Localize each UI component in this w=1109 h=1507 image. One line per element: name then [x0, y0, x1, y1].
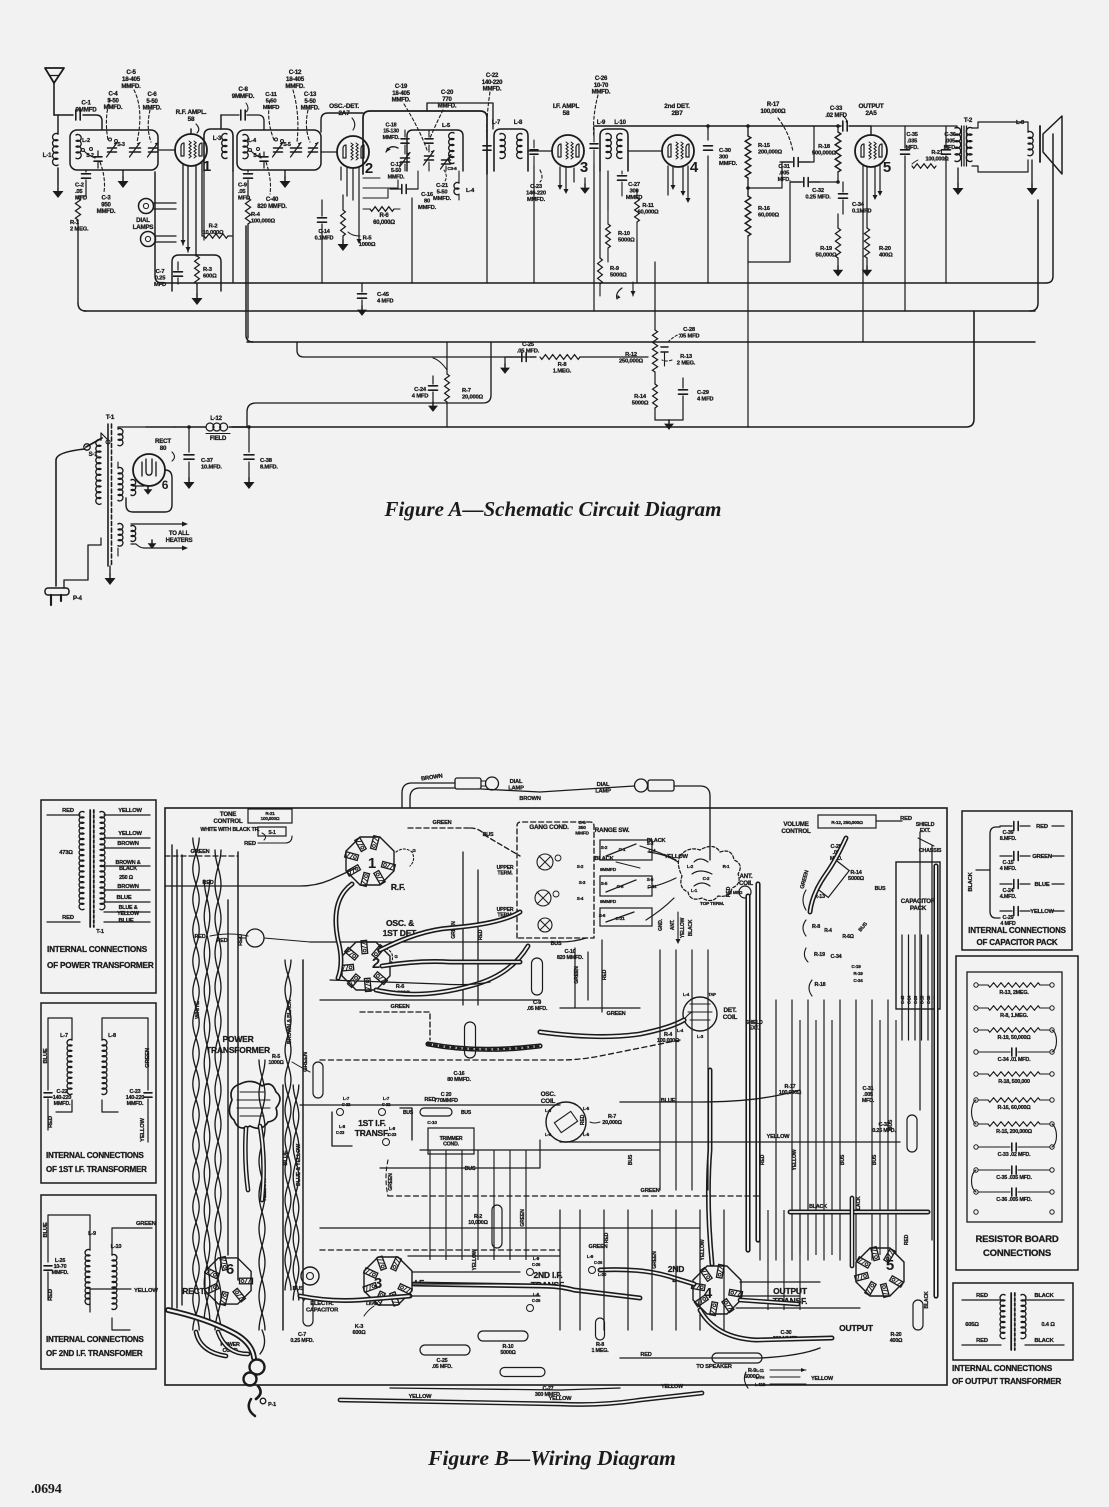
svg-text:BLUE: BLUE [43, 1222, 49, 1237]
svg-text:TO SPEAKER: TO SPEAKER [696, 1364, 733, 1370]
transformer T-1 sec bot [118, 524, 123, 557]
svg-text:C-30: C-30 [719, 148, 731, 154]
svg-text:MMFD.: MMFD. [433, 196, 452, 202]
svg-text:GREEN: GREEN [388, 1173, 394, 1191]
svg-text:C-10: C-10 [427, 1120, 437, 1126]
svg-text:R-4: R-4 [824, 928, 832, 934]
label BLACK ot1 [1034, 1293, 1054, 1299]
wire blue rot [283, 1085, 289, 1330]
label red right top [900, 816, 912, 822]
svg-text:C-4: C-4 [108, 92, 118, 98]
dial lamp assembly 1 [455, 777, 524, 791]
svg-text:1.MEG.: 1.MEG. [553, 369, 572, 375]
wire green label mid [607, 1011, 626, 1017]
svg-text:MMFD.: MMFD. [483, 87, 502, 93]
capacitor C-32 [790, 178, 831, 201]
caption 2nd IF panel [46, 1335, 144, 1358]
svg-text:BLACK: BLACK [688, 919, 694, 936]
label ant coil [739, 873, 753, 887]
range switch S-4 box [600, 876, 657, 896]
rail 311 right end [1030, 200, 1038, 311]
resistor R-12 label [619, 352, 644, 365]
ground tube3 area [580, 178, 590, 194]
drop x946 C36 [945, 166, 947, 283]
capacitor C-30 [704, 129, 738, 171]
svg-text:R-2: R-2 [209, 224, 218, 230]
svg-text:2 MEG.: 2 MEG. [677, 361, 696, 367]
label R-9 5000 [712, 1353, 762, 1380]
rail 342 left end [246, 226, 253, 342]
svg-text:C-23: C-23 [388, 1132, 397, 1137]
svg-text:R-8: R-8 [558, 362, 568, 368]
label chassis [919, 848, 942, 854]
svg-text:BUS: BUS [465, 1166, 476, 1172]
svg-text:R-6: R-6 [396, 984, 405, 990]
wire IF1 to tube3 [528, 150, 552, 152]
svg-text:C-36 .005 MFD.: C-36 .005 MFD. [996, 1197, 1032, 1203]
wire tank2 to tube2 [321, 151, 337, 153]
trimmer C-19 sym [424, 151, 435, 172]
svg-text:C-2: C-2 [75, 183, 84, 189]
svg-text:L-7: L-7 [343, 1096, 350, 1101]
ground T-1 core [105, 566, 116, 585]
label 9MMFD rsw [577, 864, 617, 873]
svg-text:C-31: C-31 [778, 164, 789, 170]
svg-text:TOP TERM.: TOP TERM. [700, 901, 724, 907]
2nd IF leads [48, 1215, 134, 1330]
label output transf [773, 1286, 808, 1306]
svg-text:S-4: S-4 [253, 153, 261, 159]
trimmer C-22 [483, 146, 491, 150]
svg-text:COIL: COIL [541, 1098, 556, 1105]
dial lamp wires [402, 783, 710, 808]
resistor R-18 [812, 132, 841, 172]
svg-text:GND.: GND. [658, 918, 664, 931]
svg-text:C-6: C-6 [147, 92, 157, 98]
svg-text:BLACK: BLACK [1034, 1338, 1054, 1344]
svg-text:C-9: C-9 [238, 183, 248, 189]
wire green dash top [408, 820, 520, 856]
svg-text:C-20: C-20 [441, 90, 454, 96]
osc mid wires [363, 178, 398, 198]
svg-text:R-11: R-11 [642, 203, 654, 209]
power cord [168, 1310, 276, 1416]
label RED ot1 [976, 1293, 988, 1299]
resistor R-16 [745, 196, 779, 236]
svg-text:R-10: R-10 [618, 231, 630, 237]
label R-17 bottom [779, 1084, 802, 1096]
svg-text:C-38: C-38 [926, 995, 931, 1004]
svg-text:15-130: 15-130 [383, 129, 399, 135]
svg-text:5: 5 [886, 1257, 894, 1274]
svg-text:C-37: C-37 [201, 458, 213, 464]
svg-text:60,000Ω: 60,000Ω [373, 220, 395, 226]
svg-text:OF POWER TRANSFORMER: OF POWER TRANSFORMER [47, 961, 154, 970]
svg-text:YELLOW: YELLOW [792, 1149, 798, 1170]
coil L-8 [514, 120, 523, 159]
resistor R-9 [598, 258, 627, 296]
trimmer C-21 label [433, 170, 452, 202]
drop x655 [654, 262, 656, 310]
svg-text:YELLOW: YELLOW [118, 831, 142, 837]
svg-text:Figure B—Wiring Diagram: Figure B—Wiring Diagram [427, 1446, 676, 1470]
svg-text:GANG COND.: GANG COND. [529, 824, 569, 831]
svg-text:60,000Ω: 60,000Ω [638, 210, 660, 216]
svg-text:YELLOW: YELLOW [700, 1239, 706, 1260]
tube1 lead wires [181, 163, 203, 256]
label YELLOW 2 [118, 831, 142, 837]
ground under R-5 [338, 236, 349, 251]
wire tube1 plate to L-3 box [190, 129, 192, 134]
label RED top [62, 808, 74, 814]
label yellow ant [664, 854, 688, 860]
svg-text:R-14: R-14 [850, 870, 862, 876]
socket 6 rect [182, 1256, 252, 1305]
panel resistor board box [956, 956, 1078, 1270]
svg-text:L-1: L-1 [43, 152, 52, 159]
svg-text:MMFD.: MMFD. [54, 1101, 71, 1107]
svg-text:BLACK: BLACK [968, 871, 974, 891]
cable right verticals [748, 884, 758, 1250]
svg-text:OF 1ST I.F. TRANSFORMER: OF 1ST I.F. TRANSFORMER [46, 1165, 147, 1174]
svg-text:1 MEG.: 1 MEG. [591, 1348, 609, 1354]
1st IF leads [48, 1018, 148, 1112]
to speaker [696, 1364, 834, 1388]
svg-text:80: 80 [160, 445, 167, 452]
label BLUE rot [43, 1048, 49, 1063]
svg-text:20,000Ω: 20,000Ω [602, 1120, 622, 1126]
wire blue long [620, 1090, 800, 1102]
label DIAL LAMPS [133, 217, 154, 231]
label red bottom [640, 1352, 651, 1358]
svg-text:BROWN: BROWN [117, 884, 139, 890]
svg-text:L-8: L-8 [389, 1126, 396, 1131]
caption Figure B [427, 1446, 676, 1470]
label GREEN rot [145, 1048, 151, 1068]
svg-text:GREEN: GREEN [641, 1188, 660, 1194]
svg-text:BLACK: BLACK [1034, 1293, 1054, 1299]
wire bus horizontal 1150 [420, 1149, 660, 1151]
svg-text:WHITE WITH BLACK TR.: WHITE WITH BLACK TR. [200, 827, 260, 833]
coil L-2 [76, 135, 90, 159]
capacitor C-18 [383, 123, 409, 155]
svg-text:R-19: R-19 [820, 246, 833, 252]
svg-text:C-26: C-26 [532, 1298, 541, 1303]
capacitor C-22 label [482, 73, 503, 140]
svg-text:MMFD.: MMFD. [143, 106, 162, 112]
ant coil scribble [678, 846, 740, 900]
svg-text:2A7: 2A7 [338, 110, 350, 117]
label YELLOW 2IF [90, 1288, 158, 1312]
wire C-2 join R-1 [78, 195, 86, 197]
svg-text:3: 3 [580, 159, 588, 176]
svg-text:YELLOW: YELLOW [680, 917, 686, 938]
svg-text:S-2: S-2 [577, 864, 584, 869]
cable output vertical [850, 1198, 855, 1266]
svg-text:L-5: L-5 [442, 123, 451, 129]
svg-text:C-1: C-1 [81, 100, 91, 107]
svg-text:OF OUTPUT TRANSFORMER: OF OUTPUT TRANSFORMER [952, 1377, 1061, 1386]
svg-text:.02 MFD: .02 MFD [825, 113, 847, 119]
wire green dash left [165, 849, 238, 856]
svg-text:C-9: C-9 [533, 1000, 541, 1006]
svg-text:S-6: S-6 [599, 913, 606, 918]
cable bottom run [300, 1284, 640, 1301]
label L-2 C-2 [687, 864, 743, 895]
power transformer label [206, 1034, 270, 1055]
capacitor C-33 [825, 106, 847, 131]
svg-text:C-38: C-38 [260, 458, 273, 464]
label 2nd DET. 2B7 [664, 103, 690, 117]
wire yellow long [320, 1227, 700, 1229]
capacitor C-1 [76, 100, 98, 121]
transformer T-1 core [106, 414, 115, 566]
svg-text:.05: .05 [75, 189, 83, 195]
wire antenna to C-1 [54, 114, 73, 116]
svg-text:GREEN: GREEN [391, 1004, 410, 1010]
svg-text:R-9: R-9 [610, 266, 620, 272]
svg-text:BROWN: BROWN [117, 841, 139, 847]
svg-text:T-2: T-2 [964, 117, 973, 124]
svg-text:R-14: R-14 [634, 394, 647, 400]
gang trimmer 2 [535, 890, 559, 906]
label RED 1IF [48, 1116, 54, 1130]
svg-text:WHITE: WHITE [195, 1001, 201, 1019]
svg-text:TONE: TONE [220, 811, 236, 818]
svg-text:.05 MFD.: .05 MFD. [517, 349, 540, 355]
svg-text:600Ω: 600Ω [203, 274, 217, 280]
capacitor C-7 [154, 262, 182, 288]
svg-text:C-5: C-5 [126, 69, 136, 76]
svg-text:COND.: COND. [443, 1142, 459, 1148]
svg-text:YELLOW: YELLOW [1030, 909, 1054, 915]
svg-text:R-19, 50,000Ω: R-19, 50,000Ω [998, 1035, 1032, 1041]
svg-text:L-4: L-4 [248, 138, 257, 144]
ground under R-3 [192, 284, 203, 305]
svg-text:C-1: C-1 [619, 847, 626, 852]
svg-text:MMFD.: MMFD. [121, 83, 141, 90]
1st IF bracket marks [332, 1108, 412, 1146]
svg-text:C-28: C-28 [683, 327, 696, 333]
cable socket1 down [336, 884, 352, 978]
panel power transformer box [41, 800, 156, 993]
svg-text:C-24: C-24 [414, 387, 427, 393]
svg-text:18-405: 18-405 [122, 76, 141, 83]
2nd IF internal coil L-10 [111, 1244, 122, 1310]
wire C-32 junction [748, 182, 801, 262]
svg-text:R-18: R-18 [815, 982, 826, 988]
svg-text:L-2: L-2 [687, 864, 694, 869]
rail 283 [155, 134, 1053, 283]
svg-text:R-16, 60,000Ω: R-16, 60,000Ω [998, 1105, 1032, 1111]
wire blue-yellow rot [293, 1085, 302, 1300]
label C-30 bottom [773, 1330, 800, 1342]
svg-text:YELLOW: YELLOW [767, 1134, 791, 1140]
svg-text:C-27: C-27 [628, 182, 640, 188]
svg-text:C-33: C-33 [830, 106, 843, 112]
svg-text:YELLOW: YELLOW [134, 1288, 158, 1294]
label gang cond [529, 820, 589, 836]
switch S-4 [249, 148, 262, 160]
svg-text:L-9: L-9 [587, 1254, 594, 1259]
label R-4x bus [824, 886, 886, 940]
svg-text:140-220: 140-220 [482, 80, 503, 86]
svg-text:10.MFD.: 10.MFD. [201, 465, 222, 471]
label R-8 bottom [591, 1318, 609, 1354]
coupling box L-3 [204, 129, 233, 171]
rail 342 [247, 341, 1035, 343]
svg-text:50,000Ω: 50,000Ω [816, 253, 838, 259]
coil L-6 tickler [454, 171, 475, 200]
label GREEN 2IF [134, 1221, 156, 1228]
svg-text:S-1: S-1 [268, 830, 276, 836]
svg-text:58: 58 [563, 110, 570, 117]
label red small 2 [216, 938, 227, 944]
svg-text:C-14: C-14 [318, 229, 330, 235]
speaker wires [972, 122, 1028, 172]
svg-text:CONTROL: CONTROL [213, 818, 243, 825]
svg-text:BLUE: BLUE [43, 1048, 49, 1063]
svg-text:C-34 .01 MFD.: C-34 .01 MFD. [998, 1057, 1031, 1063]
svg-text:COIL: COIL [723, 1014, 738, 1021]
wire black top [640, 838, 676, 860]
svg-text:R-5: R-5 [363, 236, 373, 242]
svg-text:5-50: 5-50 [146, 99, 158, 105]
resistor R-19 [816, 214, 841, 266]
wire rot labels right [760, 1119, 930, 1308]
svg-text:L-4: L-4 [466, 188, 475, 194]
label S-3 C-2 [579, 880, 586, 885]
svg-text:L-2: L-2 [82, 138, 90, 144]
tube V6 rectifier [133, 454, 169, 492]
label GND ANT rot [658, 918, 676, 931]
socket 4 [691, 1264, 742, 1315]
drop x708 [707, 171, 709, 283]
label top term [700, 901, 724, 907]
svg-text:CAPACITOR: CAPACITOR [306, 1307, 339, 1313]
svg-text:2A5: 2A5 [865, 110, 877, 117]
svg-text:OSC.-DET.: OSC.-DET. [329, 103, 359, 110]
svg-text:TRANSF.: TRANSF. [355, 1128, 390, 1138]
output transf leads [962, 1300, 1064, 1345]
svg-text:POWER: POWER [222, 1034, 253, 1044]
resistor R-1 [70, 196, 89, 303]
caption resistor board [975, 1234, 1058, 1259]
ground under T-2 [953, 168, 964, 195]
gang trimmer 3 [538, 918, 552, 932]
wire bottom red [620, 1348, 820, 1358]
svg-text:1000Ω: 1000Ω [268, 1060, 284, 1066]
ground under tank 2 [280, 170, 291, 188]
svg-text:2 MEG.: 2 MEG. [70, 227, 89, 233]
trimmer C-6 [143, 92, 162, 157]
power line left [56, 449, 85, 586]
wire bundle left 1 [215, 850, 221, 1330]
resistor R-15 [745, 136, 782, 178]
svg-text:CONNECTIONS: CONNECTIONS [983, 1248, 1051, 1259]
svg-text:0.4 Ω: 0.4 Ω [1041, 1322, 1055, 1328]
label upper term 2 [497, 907, 514, 919]
rect enclosure [126, 470, 172, 512]
T-1 internal leads left [47, 815, 80, 922]
svg-text:R-1: R-1 [723, 864, 730, 869]
coil L-5 [442, 123, 454, 164]
label green rot vc [800, 870, 811, 890]
svg-text:YELLOW: YELLOW [549, 1396, 573, 1402]
label C-32 bottom [872, 1115, 917, 1152]
capacitor C-22 panel [44, 1089, 71, 1118]
transformer T-1 primary [96, 433, 101, 545]
label C-34 B [831, 954, 864, 983]
svg-text:LAMP: LAMP [595, 788, 611, 794]
svg-text:C3-6: C3-6 [447, 166, 457, 171]
svg-text:L-8: L-8 [514, 120, 523, 126]
svg-text:S-3: S-3 [117, 142, 125, 148]
svg-text:BROWN & BLACK: BROWN & BLACK [287, 1000, 293, 1044]
svg-text:L-10: L-10 [598, 1272, 607, 1277]
caption Figure A [383, 497, 721, 521]
label blue mid [661, 1098, 676, 1104]
svg-text:100,000Ω: 100,000Ω [251, 219, 276, 225]
svg-text:YELLOW: YELLOW [661, 1384, 684, 1390]
wire left edge bundle [172, 845, 182, 1312]
wire green long2 [388, 1188, 760, 1196]
svg-text:L-5: L-5 [583, 1106, 590, 1111]
capacitor C-37 [184, 425, 223, 489]
capacitor C-27 [618, 171, 643, 201]
svg-text:INTERNAL CONNECTIONS: INTERNAL CONNECTIONS [46, 1151, 144, 1160]
ground inside rect area [133, 486, 152, 495]
svg-text:.05 MFD.: .05 MFD. [432, 1364, 453, 1370]
capacitor C-28 sym [661, 327, 699, 366]
1st IF internal coil L-7 [60, 1033, 72, 1095]
svg-text:C-12: C-12 [289, 69, 302, 76]
resistor R-5 [341, 195, 376, 248]
svg-text:L-3: L-3 [697, 1034, 704, 1039]
svg-text:I.F. AMPL: I.F. AMPL [553, 103, 580, 110]
svg-text:RED: RED [194, 934, 205, 940]
svg-text:R-3: R-3 [203, 267, 213, 273]
label BLUE rot 2IF [43, 1222, 49, 1237]
svg-text:500,000Ω: 500,000Ω [812, 151, 837, 157]
label bus mid [465, 1166, 476, 1172]
resistor R-5 B [268, 1054, 323, 1098]
drop x487 osc box [486, 174, 488, 283]
wires socket3 to right [408, 1256, 560, 1296]
svg-text:6: 6 [226, 1261, 234, 1278]
svg-text:RESISTOR BOARD: RESISTOR BOARD [975, 1234, 1058, 1245]
label BROWN 2 [117, 884, 139, 890]
svg-text:5-50: 5-50 [304, 99, 316, 105]
label C-20 770 [403, 1092, 472, 1116]
capacitor C-36 [942, 132, 958, 166]
capacitor C-26 [590, 76, 611, 165]
resistor R-2 [203, 224, 228, 239]
svg-text:INTERNAL CONNECTIONS: INTERNAL CONNECTIONS [952, 1364, 1053, 1373]
svg-text:4 MFD: 4 MFD [377, 299, 393, 305]
svg-text:300: 300 [719, 155, 728, 161]
svg-text:0.1MFD: 0.1MFD [852, 209, 871, 215]
capacitor C-24 [412, 376, 438, 412]
svg-text:770MMFD: 770MMFD [434, 1098, 458, 1104]
tube V5 output [855, 135, 891, 176]
label C-10 820 [557, 949, 584, 961]
svg-text:.05: .05 [238, 189, 246, 195]
svg-text:5-50: 5-50 [391, 168, 401, 174]
resistor R-21 [912, 150, 949, 168]
antenna [45, 68, 64, 115]
svg-text:INTERNAL CONNECTIONS: INTERNAL CONNECTIONS [47, 945, 148, 954]
